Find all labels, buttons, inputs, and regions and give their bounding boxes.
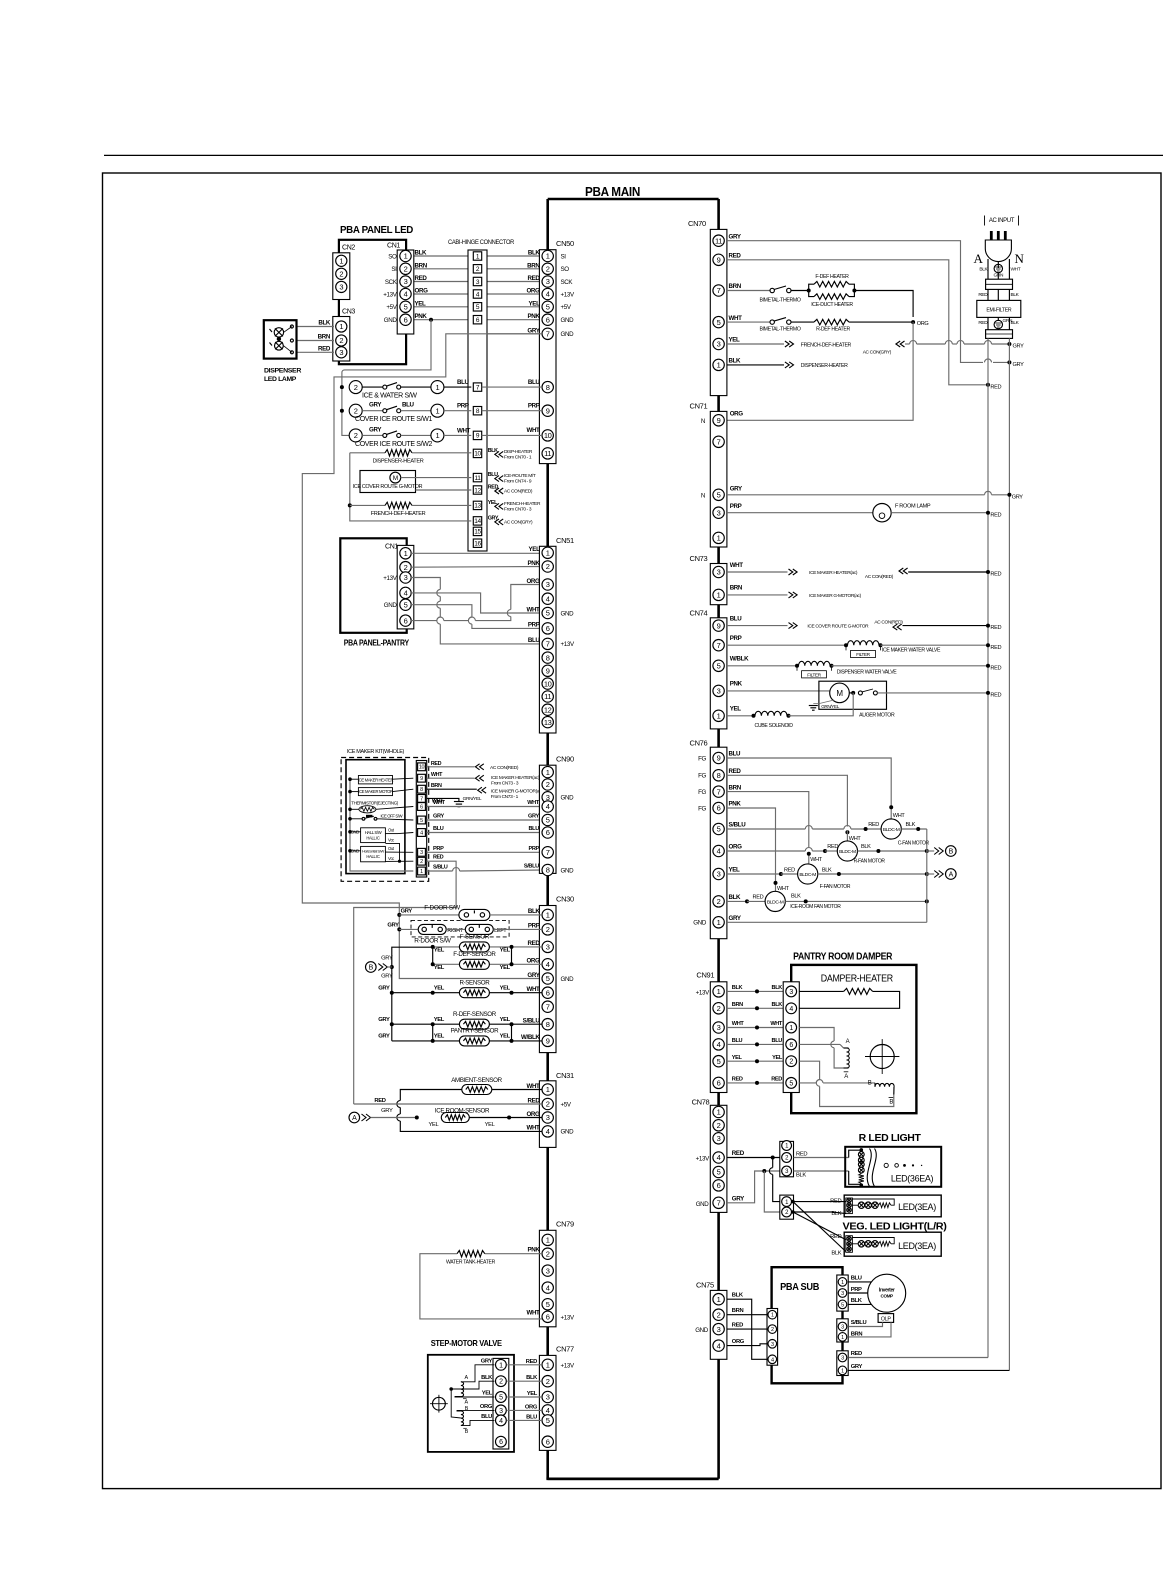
- svg-text:BLK: BLK: [772, 1002, 783, 1008]
- svg-text:AC CON(RED): AC CON(RED): [865, 574, 894, 580]
- svg-text:R-DOOR S/W: R-DOOR S/W: [414, 937, 452, 944]
- svg-text:BLK: BLK: [732, 985, 743, 991]
- svg-text:B: B: [889, 1100, 893, 1106]
- svg-text:YEL: YEL: [434, 1017, 445, 1023]
- svg-text:4: 4: [404, 589, 408, 598]
- svg-text:SCK: SCK: [385, 279, 398, 286]
- svg-text:LED LAMP: LED LAMP: [264, 376, 297, 383]
- svg-text:RED: RED: [796, 1152, 807, 1158]
- svg-text:RED: RED: [990, 665, 1001, 671]
- svg-text:FRENCH-DEF-HEATER: FRENCH-DEF-HEATER: [801, 342, 852, 348]
- svg-text:2: 2: [546, 1249, 550, 1258]
- svg-text:ICE MAKER WATER VALVE: ICE MAKER WATER VALVE: [882, 648, 941, 654]
- svg-text:WHT: WHT: [526, 1125, 540, 1132]
- svg-text:CN73: CN73: [690, 554, 708, 563]
- svg-text:GRY: GRY: [732, 1196, 745, 1203]
- svg-text:6: 6: [420, 804, 423, 810]
- connector CN76: [710, 747, 727, 939]
- svg-text:YEL: YEL: [500, 1017, 511, 1023]
- svg-text:ICE MAKER HEATER: ICE MAKER HEATER: [358, 777, 394, 782]
- svg-text:7: 7: [717, 438, 721, 447]
- svg-text:F ROOM LAMP: F ROOM LAMP: [895, 504, 931, 510]
- wire CN1 to hinge rows: [411, 255, 471, 257]
- svg-text:WHT: WHT: [526, 427, 540, 434]
- svg-text:GRY: GRY: [729, 233, 742, 240]
- node B arrow: [366, 962, 377, 973]
- wire CN70 pin3 YEL french-def-heater: [727, 343, 784, 345]
- svg-text:4: 4: [771, 1357, 774, 1363]
- wire BLU to C-FAN top: [727, 758, 891, 820]
- dispenser LED lamp: [264, 320, 297, 358]
- svg-text:RED: RED: [978, 320, 988, 326]
- wire PNK-GND junction to switch bus: [429, 318, 433, 322]
- fan motor C-FAN: [881, 819, 901, 839]
- connector CN1: [397, 250, 414, 334]
- svg-text:GND: GND: [561, 317, 575, 324]
- svg-text:8: 8: [717, 771, 721, 780]
- connector CN30: [539, 906, 556, 1053]
- fan motor ICE-ROOM FAN: [765, 891, 785, 911]
- sensor R-DEF-SENSOR: [392, 1023, 460, 1025]
- svg-text:GND: GND: [561, 1129, 575, 1136]
- svg-text:6: 6: [717, 1079, 721, 1088]
- svg-text:A: A: [949, 872, 954, 879]
- svg-text:WATER TANK-HEATER: WATER TANK-HEATER: [446, 1260, 495, 1266]
- sensor PANTRY-SENSOR: [392, 1040, 460, 1042]
- AC terminal block lower: [986, 330, 1013, 339]
- svg-text:8: 8: [546, 383, 550, 392]
- svg-text:WHT: WHT: [526, 986, 540, 993]
- wire pantry pin5 to CN51 pin6 (PRP): [411, 605, 472, 617]
- svg-text:GND: GND: [561, 867, 575, 874]
- svg-text:BLK: BLK: [906, 822, 916, 828]
- svg-text:AC CON(RED): AC CON(RED): [490, 765, 519, 771]
- svg-text:ICE COVER ROUTE G-MOTOR: ICE COVER ROUTE G-MOTOR: [807, 624, 869, 630]
- svg-text:WHT: WHT: [810, 857, 823, 863]
- svg-text:PANTRY-SENSOR: PANTRY-SENSOR: [451, 1028, 499, 1035]
- svg-text:BLK: BLK: [772, 985, 783, 991]
- svg-text:STEP-MOTOR VALVE: STEP-MOTOR VALVE: [431, 1338, 503, 1348]
- svg-text:1: 1: [435, 406, 439, 415]
- svg-text:PRP: PRP: [528, 923, 540, 930]
- svg-text:RED: RED: [851, 1351, 862, 1357]
- wire ORG down to CN71 pin9: [727, 322, 913, 420]
- svg-text:1: 1: [546, 911, 550, 920]
- svg-text:ICE COVER ROUTE G-MOTOR: ICE COVER ROUTE G-MOTOR: [353, 484, 423, 490]
- svg-text:CN76: CN76: [690, 739, 708, 748]
- svg-text:GRN/YEL: GRN/YEL: [463, 796, 482, 802]
- svg-text:2: 2: [546, 780, 550, 789]
- svg-text:1: 1: [546, 549, 550, 558]
- svg-text:BLK: BLK: [318, 320, 331, 327]
- svg-text:WHT: WHT: [1011, 267, 1021, 273]
- svg-text:4: 4: [546, 1127, 550, 1136]
- connector CN79: [539, 1230, 556, 1327]
- svg-text:7: 7: [717, 1199, 721, 1208]
- CABI-HINGE connector body: [468, 250, 487, 551]
- svg-text:YEL: YEL: [529, 546, 541, 553]
- svg-text:GRY: GRY: [369, 402, 382, 409]
- svg-text:RED: RED: [431, 761, 442, 767]
- svg-text:PNK: PNK: [729, 801, 742, 808]
- svg-text:5: 5: [546, 816, 550, 825]
- svg-text:BIMETAL-THERMO: BIMETAL-THERMO: [759, 297, 800, 303]
- svg-text:BRN: BRN: [730, 585, 743, 592]
- svg-text:BLK: BLK: [831, 1211, 841, 1217]
- wire BRN to F-FAN top: [727, 792, 809, 848]
- svg-text:3: 3: [420, 850, 423, 856]
- svg-text:FG: FG: [698, 773, 706, 780]
- svg-text:GRY: GRY: [369, 426, 382, 433]
- svg-text:10: 10: [544, 679, 552, 688]
- svg-text:1: 1: [841, 1280, 844, 1286]
- wire pantry pin4 to CN51 pin5 (WHT): [411, 593, 542, 613]
- svg-text:F-DEF-SENSOR: F-DEF-SENSOR: [453, 951, 496, 958]
- GRY gnd long bus from CN50 pin7: [302, 334, 542, 979]
- svg-text:PBA SUB: PBA SUB: [780, 1281, 820, 1293]
- svg-text:ICE MAKER HEATER(ac): ICE MAKER HEATER(ac): [809, 570, 858, 576]
- svg-text:FG: FG: [698, 755, 706, 762]
- svg-text:BLK: BLK: [729, 358, 742, 365]
- svg-text:GRY: GRY: [851, 1364, 863, 1370]
- svg-text:SO: SO: [388, 253, 397, 260]
- svg-text:5: 5: [841, 1302, 844, 1308]
- svg-text:A: A: [352, 1115, 357, 1122]
- switch ICE OFF S/W: [350, 818, 362, 820]
- svg-text:+13V: +13V: [696, 1156, 710, 1163]
- svg-text:GRY: GRY: [381, 973, 393, 979]
- fan motor F-FAN: [798, 864, 818, 884]
- svg-text:CN77: CN77: [556, 1345, 574, 1354]
- component Horizontal S/W HALL IC: [361, 846, 386, 861]
- svg-text:1: 1: [546, 1236, 550, 1245]
- svg-text:HALL S/W: HALL S/W: [365, 830, 382, 835]
- svg-text:2: 2: [717, 1121, 721, 1130]
- svg-text:A: A: [973, 251, 983, 266]
- svg-text:BRN: BRN: [732, 1308, 744, 1314]
- svg-text:VEG. LED LIGHT(L/R): VEG. LED LIGHT(L/R): [843, 1221, 947, 1233]
- left heater feed bus: [350, 453, 472, 521]
- svg-text:CN2: CN2: [342, 245, 355, 252]
- svg-text:5: 5: [717, 662, 721, 671]
- svg-text:HALL IC: HALL IC: [366, 835, 380, 840]
- svg-text:FG: FG: [698, 805, 706, 812]
- svg-text:AC CON(GRY): AC CON(GRY): [504, 519, 533, 525]
- step motor valve box: [428, 1355, 514, 1452]
- svg-text:1: 1: [546, 768, 550, 777]
- svg-text:YEL: YEL: [482, 1391, 493, 1397]
- connector CN71: [710, 411, 727, 547]
- svg-text:WHT: WHT: [730, 562, 744, 569]
- svg-text:3: 3: [771, 1342, 774, 1348]
- svg-text:AC CON(GRY): AC CON(GRY): [863, 349, 892, 355]
- PBA PANEL LED board outline: [339, 240, 406, 364]
- svg-text:PANTRY ROOM DAMPER: PANTRY ROOM DAMPER: [793, 951, 893, 963]
- svg-text:+13V: +13V: [383, 291, 397, 298]
- svg-text:7: 7: [546, 640, 550, 649]
- svg-text:CN50: CN50: [556, 239, 574, 248]
- svg-text:PNK: PNK: [527, 1246, 540, 1253]
- pantry damper box: [791, 965, 916, 1113]
- svg-text:R-DEF-SENSOR: R-DEF-SENSOR: [453, 1011, 497, 1018]
- svg-text:N: N: [701, 418, 705, 425]
- lamp F ROOM LAMP: [727, 512, 873, 514]
- sensor pair links R-DEF/PANTRY: [432, 1024, 434, 1041]
- R LED internals: [849, 1150, 862, 1157]
- svg-text:1: 1: [717, 361, 721, 370]
- svg-text:3: 3: [499, 1408, 503, 1415]
- svg-text:RED: RED: [990, 693, 1001, 699]
- svg-text:BLK: BLK: [528, 250, 541, 257]
- svg-text:GRY: GRY: [381, 1108, 393, 1114]
- svg-text:PRP: PRP: [851, 1287, 862, 1293]
- svg-text:14: 14: [474, 518, 481, 525]
- wire GRY fan return bus: [727, 921, 927, 923]
- svg-text:YEL: YEL: [500, 948, 511, 954]
- svg-text:LED(3EA): LED(3EA): [898, 1241, 936, 1251]
- svg-text:W/BLK: W/BLK: [730, 656, 749, 663]
- AC terminal block upper: [986, 279, 1013, 289]
- connector CN1 pantry: [397, 545, 414, 629]
- svg-text:Vcc: Vcc: [388, 856, 394, 861]
- svg-text:CUBE SOLENOID: CUBE SOLENOID: [755, 723, 794, 729]
- svg-text:M: M: [393, 475, 398, 482]
- AC plug leads: [987, 259, 989, 279]
- sensor pair links F/F-DEF: [432, 947, 434, 964]
- svg-text:YEL: YEL: [434, 1034, 445, 1040]
- svg-text:CABI-HINGE CONNECTOR: CABI-HINGE CONNECTOR: [448, 239, 515, 246]
- svg-text:10: 10: [419, 765, 425, 771]
- damper motor symbol: [870, 1045, 894, 1069]
- svg-text:F-FAN MOTOR: F-FAN MOTOR: [820, 884, 851, 890]
- svg-text:GRY: GRY: [1013, 344, 1025, 350]
- svg-text:5: 5: [546, 1300, 550, 1309]
- AC plug: [985, 240, 1011, 262]
- svg-text:1: 1: [499, 1362, 503, 1369]
- wire RED to R-FAN top: [727, 775, 848, 826]
- svg-text:9: 9: [717, 621, 721, 630]
- svg-text:RED: RED: [784, 867, 795, 873]
- svg-text:3: 3: [546, 1113, 550, 1122]
- svg-text:2: 2: [499, 1379, 503, 1386]
- svg-text:FILTER: FILTER: [856, 652, 870, 657]
- svg-text:FG: FG: [698, 789, 706, 796]
- svg-text:AMBIENT-SENSOR: AMBIENT-SENSOR: [451, 1077, 502, 1084]
- kit S/BLU wire to CN90 pin8: [427, 870, 453, 872]
- svg-text:BRN: BRN: [732, 1002, 743, 1008]
- svg-text:DISPENSER: DISPENSER: [264, 368, 301, 375]
- svg-text:1: 1: [717, 918, 721, 927]
- svg-text:BLU: BLU: [732, 1038, 743, 1044]
- svg-text:+5V: +5V: [561, 1101, 572, 1108]
- svg-text:ICE OFF S/W: ICE OFF S/W: [381, 814, 403, 819]
- connector CN50: [539, 250, 556, 464]
- svg-text:GRY: GRY: [1013, 362, 1025, 368]
- svg-text:CN1: CN1: [387, 243, 400, 250]
- component ICE MAKER HEATER: [358, 776, 392, 784]
- svg-text:PNK: PNK: [730, 681, 743, 688]
- step motor valve connector: [493, 1358, 509, 1449]
- wire CN71 pin5 GRY to supply: [727, 494, 985, 496]
- svg-text:2: 2: [339, 270, 343, 279]
- svg-text:3: 3: [546, 1393, 550, 1402]
- svg-text:8: 8: [546, 1020, 550, 1029]
- svg-text:4: 4: [717, 847, 721, 856]
- svg-text:1: 1: [546, 1085, 550, 1094]
- svg-text:5: 5: [404, 303, 408, 312]
- svg-text:BLDC-M: BLDC-M: [799, 872, 816, 878]
- svg-text:YEL: YEL: [429, 1122, 440, 1128]
- svg-text:N: N: [701, 493, 705, 500]
- svg-text:ORG: ORG: [525, 1404, 538, 1410]
- svg-text:4: 4: [789, 1006, 793, 1013]
- svg-text:CN70: CN70: [688, 219, 706, 228]
- svg-text:BLU: BLU: [528, 379, 541, 386]
- svg-text:RED: RED: [526, 1359, 537, 1365]
- svg-text:9: 9: [717, 754, 721, 763]
- svg-text:F-SENSOR: F-SENSOR: [460, 934, 490, 941]
- PBA PANEL-PANTRY board outline: [340, 538, 406, 633]
- svg-text:11: 11: [544, 449, 551, 458]
- svg-text:10: 10: [544, 431, 552, 440]
- svg-text:11: 11: [715, 236, 722, 245]
- svg-text:3: 3: [717, 340, 721, 349]
- svg-text:GRY: GRY: [378, 1034, 390, 1040]
- svg-text:R-DEF HEATER: R-DEF HEATER: [816, 326, 850, 332]
- CN91 link wires: [727, 990, 783, 992]
- svg-text:From CN73 - 3: From CN73 - 3: [491, 781, 519, 787]
- svg-text:8: 8: [546, 653, 550, 662]
- svg-text:2: 2: [717, 1310, 721, 1319]
- svg-text:COVER ICE ROUTE S/W1: COVER ICE ROUTE S/W1: [355, 416, 432, 423]
- svg-text:PRP: PRP: [528, 403, 540, 410]
- svg-text:CN74: CN74: [690, 609, 708, 618]
- svg-text:B: B: [949, 849, 954, 856]
- svg-text:3: 3: [546, 943, 550, 952]
- svg-text:1: 1: [339, 257, 343, 266]
- svg-text:ORG: ORG: [729, 844, 743, 851]
- svg-text:BLK: BLK: [979, 267, 988, 273]
- svg-text:BLK: BLK: [528, 908, 541, 915]
- svg-text:ICE MAKER KIT(WHOLE): ICE MAKER KIT(WHOLE): [347, 749, 405, 755]
- wire CN70 pin11 GRY to AC line: [727, 241, 983, 363]
- sensor F-DEF-SENSOR: [433, 963, 460, 965]
- svg-text:RED: RED: [990, 645, 1001, 651]
- svg-text:2: 2: [717, 1004, 721, 1013]
- svg-text:CN30: CN30: [556, 895, 574, 904]
- svg-text:SCK: SCK: [561, 279, 574, 286]
- svg-text:9: 9: [717, 256, 721, 265]
- svg-text:3: 3: [717, 508, 721, 517]
- fan motor R-FAN: [837, 841, 857, 861]
- svg-text:AC CON(RED): AC CON(RED): [874, 619, 903, 625]
- svg-text:CN90: CN90: [556, 755, 574, 764]
- svg-text:1: 1: [404, 549, 408, 558]
- svg-text:WHT: WHT: [729, 315, 743, 322]
- svg-text:GRY: GRY: [381, 955, 393, 961]
- damper coil B: [799, 1061, 819, 1079]
- svg-text:GRY: GRY: [433, 814, 444, 820]
- svg-text:7: 7: [717, 787, 721, 796]
- svg-text:WHT: WHT: [526, 1310, 540, 1317]
- svg-text:6: 6: [499, 1439, 503, 1446]
- wire hinge to CN50 rows: [482, 255, 542, 257]
- svg-text:ORG: ORG: [730, 411, 744, 418]
- bimetal thermo 2: [727, 321, 770, 323]
- wire pantry pin1 to CN51 pin1: [411, 552, 542, 554]
- svg-text:5: 5: [499, 1395, 503, 1402]
- svg-text:AC CON(RED): AC CON(RED): [504, 489, 533, 495]
- svg-text:BRN: BRN: [318, 334, 331, 341]
- kit wire RED AC CON(RED): [427, 766, 475, 768]
- svg-text:BLK: BLK: [526, 1375, 538, 1381]
- svg-text:S/BLU: S/BLU: [729, 822, 747, 829]
- connector CN70: [710, 229, 727, 395]
- PBA SUB output connector: [837, 1351, 848, 1376]
- svg-text:YEL: YEL: [772, 1055, 783, 1061]
- svg-text:9: 9: [420, 776, 423, 782]
- svg-text:2: 2: [354, 383, 358, 392]
- svg-text:4: 4: [546, 960, 550, 969]
- svg-text:5: 5: [546, 1416, 550, 1425]
- svg-text:BLK: BLK: [732, 1293, 744, 1299]
- outer border frame: [103, 173, 1162, 1489]
- svg-text:CN3: CN3: [342, 309, 355, 316]
- svg-text:1: 1: [717, 987, 721, 996]
- svg-text:YEL: YEL: [415, 300, 427, 307]
- kit to CN90 wires: [427, 806, 542, 808]
- svg-text:YEL: YEL: [730, 706, 742, 713]
- CABI-HINGE pins 1-16: [473, 252, 481, 260]
- sensor F-SENSOR: [433, 946, 460, 948]
- inverter COMP: [868, 1274, 906, 1312]
- svg-text:5: 5: [420, 818, 423, 824]
- svg-text:4: 4: [717, 1153, 721, 1162]
- svg-text:5: 5: [789, 1080, 793, 1087]
- svg-text:F-DEF HEATER: F-DEF HEATER: [815, 274, 849, 280]
- svg-text:6: 6: [546, 1313, 550, 1322]
- svg-text:+13V: +13V: [561, 291, 575, 298]
- svg-text:4: 4: [499, 1418, 503, 1425]
- sensor common bus with B arrow: [392, 947, 433, 1041]
- svg-text:PRP: PRP: [433, 846, 444, 852]
- svg-text:GND: GND: [561, 976, 575, 983]
- svg-text:BLU: BLU: [481, 1414, 492, 1420]
- svg-text:S/BLU: S/BLU: [524, 864, 539, 870]
- svg-text:RED: RED: [830, 1234, 841, 1240]
- svg-text:RED: RED: [753, 895, 764, 901]
- switch F-DOOR S/W: [399, 914, 459, 916]
- svg-text:B: B: [369, 965, 374, 972]
- svg-text:1: 1: [841, 1335, 844, 1341]
- wire to upper LED(3EA): [793, 1201, 846, 1203]
- svg-text:BLK: BLK: [831, 1251, 841, 1257]
- svg-text:GRY: GRY: [387, 922, 399, 928]
- svg-text:10: 10: [474, 451, 481, 458]
- svg-text:R LED LIGHT: R LED LIGHT: [859, 1132, 922, 1144]
- heater DISPENSER-HEATER: [350, 452, 385, 454]
- svg-text:7: 7: [546, 330, 550, 339]
- svg-text:DISPENSER WATER VALVE: DISPENSER WATER VALVE: [837, 669, 898, 675]
- svg-text:YEL: YEL: [732, 1055, 743, 1061]
- wire YEL row to F-FAN: [727, 873, 781, 875]
- EMI filter lower leads: [987, 317, 989, 329]
- svg-text:1: 1: [546, 252, 550, 261]
- svg-text:RED: RED: [732, 1150, 745, 1157]
- svg-text:GRY: GRY: [730, 485, 743, 492]
- svg-text:WHT: WHT: [526, 1083, 540, 1090]
- svg-text:5: 5: [546, 303, 550, 312]
